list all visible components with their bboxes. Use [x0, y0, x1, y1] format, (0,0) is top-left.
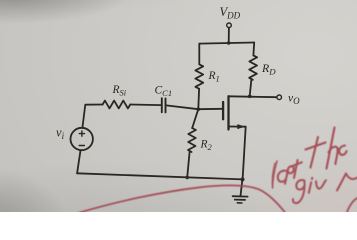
resistor R2: [188, 128, 196, 152]
svg-text:vO: vO: [288, 93, 300, 106]
label VDD: [220, 5, 241, 21]
wire RD top: [252, 43, 255, 56]
wire vi top to corner: [82, 105, 102, 128]
ground: [233, 179, 248, 203]
label vi: [56, 126, 65, 141]
terminal vO: [277, 95, 282, 100]
source vi (circle with +/-): [71, 128, 93, 150]
label RD: [261, 61, 276, 77]
annotation red corner stroke: [347, 198, 357, 212]
svg-text:vi: vi: [56, 126, 65, 141]
wire RSi to CC1: [130, 104, 161, 107]
label CC1: [155, 85, 173, 99]
wire R1 to gate node: [197, 89, 200, 109]
wire vi bottom to rail: [77, 150, 80, 173]
terminal VDD: [227, 23, 232, 28]
resistor R1: [195, 64, 203, 88]
node R2-rail junction: [185, 176, 189, 180]
svg-text:CC1: CC1: [155, 85, 173, 99]
svg-text:RSi: RSi: [112, 84, 127, 98]
annotation red lead-in stroke: [272, 161, 277, 188]
wire rail to R1: [198, 44, 200, 65]
svg-text:R2: R2: [200, 139, 213, 153]
capacitor CC1: [162, 98, 166, 112]
svg-text:RD: RD: [261, 61, 276, 77]
resistor RSi: [103, 101, 131, 109]
transistor Q1 channel bar: [227, 96, 229, 129]
wire RD to drain node: [250, 80, 252, 96]
wire bottom rail: [77, 173, 243, 179]
wire R2 to bottom rail: [187, 152, 189, 177]
annotation red word "the": [306, 128, 347, 169]
annotation red word "not": [278, 160, 302, 184]
wire drain line to vO: [229, 95, 277, 98]
node source-ground junction: [241, 177, 245, 181]
wire top rail: [199, 43, 254, 44]
transistor Q1 gate bar: [222, 102, 224, 119]
annotation red word "giv": [293, 174, 357, 204]
resistor RD: [249, 55, 257, 79]
label R2: [200, 139, 213, 153]
wire gate lead: [198, 108, 222, 110]
svg-text:VDD: VDD: [220, 5, 241, 21]
wire VDD stem: [228, 28, 230, 43]
node VDD-rail junction: [227, 41, 231, 45]
node gate junction: [197, 107, 201, 111]
label vO: [288, 93, 300, 106]
wire gate node to R2: [192, 109, 198, 128]
wire CC1 to gate node: [166, 105, 198, 109]
transistor Q1 source lead with arrow: [229, 125, 246, 180]
label R1: [208, 70, 220, 84]
label RSi: [112, 84, 127, 98]
node drain junction: [248, 95, 252, 99]
annotation red sweeping arc: [78, 185, 286, 213]
svg-text:R1: R1: [208, 70, 220, 84]
